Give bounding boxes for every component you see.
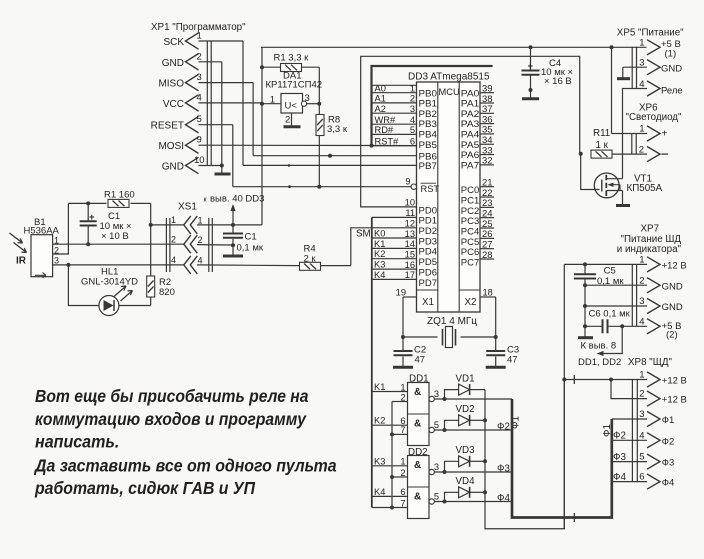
svg-text:K2: K2 bbox=[374, 416, 385, 426]
node thick vertical on pin6 row bbox=[370, 144, 374, 148]
svg-text:C1: C1 bbox=[245, 232, 257, 243]
ground XP1 GND symbol bbox=[215, 166, 231, 175]
svg-text:K1: K1 bbox=[374, 382, 385, 392]
node diode branch VD1 bbox=[443, 397, 447, 401]
svg-text:PA4: PA4 bbox=[461, 130, 480, 140]
svg-text:14: 14 bbox=[405, 239, 415, 249]
label Ф1 rotated at gate bbox=[511, 416, 522, 429]
note text line bbox=[35, 432, 119, 452]
wire PD0 route over MCU bbox=[361, 56, 580, 207]
MCU pin 39 PA0 bbox=[461, 84, 494, 99]
svg-text:2: 2 bbox=[285, 115, 290, 126]
connector XP8 title bbox=[628, 357, 673, 368]
note text line bbox=[35, 409, 307, 429]
ground DA1 pin2 bbox=[284, 125, 301, 128]
resistor R11 label bbox=[593, 128, 610, 151]
node row7 tap bbox=[328, 154, 332, 158]
node C4 bottom bbox=[529, 88, 533, 92]
svg-text:&: & bbox=[414, 419, 421, 430]
MCU pin label PB3 bbox=[419, 119, 438, 129]
svg-text:MISO: MISO bbox=[158, 79, 184, 90]
wire X1 to crystal bbox=[403, 297, 438, 337]
svg-text:RESET: RESET bbox=[151, 121, 184, 132]
svg-text:12: 12 bbox=[405, 218, 415, 228]
wire MCU pin7 row bbox=[253, 155, 416, 157]
svg-text:3: 3 bbox=[639, 296, 644, 307]
svg-text:2: 2 bbox=[171, 235, 176, 245]
ground C4 bbox=[522, 97, 539, 100]
MCU pin18 bbox=[480, 288, 496, 298]
node cathode bus VD4 bbox=[483, 490, 487, 494]
wire HL1 left bbox=[68, 265, 99, 306]
svg-text:11: 11 bbox=[405, 208, 415, 218]
svg-text:&: & bbox=[414, 492, 421, 503]
wire thick Ф1 route bbox=[512, 399, 612, 518]
svg-text:3: 3 bbox=[197, 72, 202, 83]
wire VT1 source to ground bbox=[622, 191, 624, 205]
resistor R1 3,3 к bbox=[262, 64, 319, 72]
wire DA1 pin1 bbox=[262, 103, 281, 105]
svg-text:7: 7 bbox=[400, 498, 405, 508]
wire X2 to crystal bbox=[461, 297, 496, 337]
MCU X2 cell bbox=[459, 290, 480, 308]
transistor VT1 bbox=[594, 173, 622, 198]
wire R1 right vertical down to DA1 pin3 bbox=[318, 67, 320, 104]
net K3 wire to gate input 1 bbox=[372, 456, 408, 466]
svg-text:17: 17 bbox=[405, 270, 415, 280]
svg-text:DD1, DD2: DD1, DD2 bbox=[578, 357, 621, 368]
svg-text:1: 1 bbox=[639, 124, 644, 135]
wire HL1 right to R2 bbox=[119, 305, 151, 307]
svg-text:выв. 40 DD3: выв. 40 DD3 bbox=[210, 194, 264, 205]
svg-text:WR#: WR# bbox=[375, 115, 396, 125]
diode VD1 bbox=[456, 373, 475, 395]
wire MISO from XP1-3 bbox=[199, 82, 254, 84]
wire gnd vertical C5-C6 bbox=[584, 285, 586, 336]
capacitor C4 bbox=[522, 47, 540, 97]
svg-text:GND: GND bbox=[662, 281, 683, 292]
wire gate output row 1 bbox=[434, 398, 512, 400]
ground C3 bbox=[486, 366, 506, 369]
connector XP7 title bbox=[617, 224, 682, 255]
svg-text:A2: A2 bbox=[375, 104, 386, 114]
net K0 to MCU pin 13 bbox=[372, 229, 417, 239]
svg-text:С6 0,1 мк: С6 0,1 мк bbox=[589, 309, 631, 320]
capacitor C1 10мк bbox=[80, 203, 97, 244]
svg-text:PD6: PD6 bbox=[419, 267, 438, 277]
wire GND from XP1-10 bbox=[199, 165, 222, 167]
svg-text:К выв. 8: К выв. 8 bbox=[581, 341, 617, 352]
MCU X1 cell bbox=[417, 290, 438, 308]
svg-text:Ф4: Ф4 bbox=[497, 493, 510, 504]
MCU pin 36 PA3 bbox=[461, 114, 494, 129]
svg-text:GNL-3014YD: GNL-3014YD bbox=[81, 277, 138, 288]
node crystal left bbox=[401, 335, 405, 339]
svg-text:2: 2 bbox=[410, 94, 415, 104]
svg-text:4: 4 bbox=[171, 255, 176, 265]
svg-text:SM: SM bbox=[356, 229, 371, 240]
svg-text:и индикатора": и индикатора" bbox=[617, 244, 682, 255]
svg-text:1: 1 bbox=[410, 84, 415, 94]
net A0 wire to MCU pin 1 bbox=[372, 84, 417, 94]
svg-text:PA2: PA2 bbox=[461, 109, 480, 119]
wire B1 pin2 up to R1-160 row bbox=[53, 203, 69, 254]
IR receiver B1 label bbox=[24, 217, 60, 237]
node R1 left bbox=[260, 65, 264, 69]
wire XP5 pin4 to VT1 drain bbox=[623, 89, 648, 179]
ground VT1 bbox=[616, 204, 630, 207]
connector XS1 body left bbox=[166, 218, 170, 272]
supervisor DA1 label bbox=[266, 71, 323, 91]
svg-text:GND: GND bbox=[162, 162, 184, 173]
wire RESET from XP1-5 bbox=[199, 124, 233, 126]
net RD# wire to MCU pin 5 bbox=[372, 125, 417, 135]
svg-text:PD7: PD7 bbox=[419, 278, 438, 288]
connector XP1 title bbox=[151, 22, 246, 33]
net WR# wire to MCU pin 4 bbox=[372, 115, 417, 125]
MCU pin9 RST bbox=[405, 177, 439, 195]
svg-text:6: 6 bbox=[639, 472, 644, 483]
wire XS1 row1 bbox=[151, 224, 184, 226]
svg-text:PC7: PC7 bbox=[461, 257, 480, 267]
note text line bbox=[35, 386, 309, 406]
wire diode jog VD1 bbox=[445, 390, 459, 399]
svg-text:7: 7 bbox=[400, 425, 405, 435]
connector XP6 pin1 bbox=[612, 124, 668, 142]
svg-text:PC2: PC2 bbox=[461, 206, 480, 216]
svg-text:9: 9 bbox=[197, 135, 202, 146]
svg-text:MCU: MCU bbox=[439, 87, 460, 97]
MCU pin label PB1 bbox=[419, 99, 438, 109]
AND gate DD1 bbox=[408, 383, 430, 446]
svg-text:2: 2 bbox=[400, 468, 405, 478]
resistor R8 label bbox=[327, 115, 348, 135]
node DA1 pin1 / VCC bbox=[260, 102, 264, 106]
svg-text:4: 4 bbox=[197, 92, 202, 103]
connector XS1 pin2 bbox=[171, 235, 203, 254]
svg-text:1: 1 bbox=[400, 457, 405, 467]
svg-text:820: 820 bbox=[159, 287, 175, 298]
svg-text:R1 3,3 к: R1 3,3 к bbox=[274, 53, 310, 64]
node speck on pin8 row bbox=[288, 164, 291, 167]
node XP7 pin3 left bbox=[583, 304, 587, 308]
connector XP8 pin2 bbox=[639, 389, 687, 407]
gate output 3 bubble bbox=[429, 462, 439, 475]
connector XP5 pin1 bbox=[639, 38, 681, 60]
svg-text:работать, сидюк ГАВ и УП: работать, сидюк ГАВ и УП bbox=[34, 478, 255, 498]
MCU pin label PB7 bbox=[419, 161, 438, 171]
svg-text:XP5 "Питание": XP5 "Питание" bbox=[617, 28, 684, 39]
resistor R8 3,3 к bbox=[316, 104, 324, 187]
svg-text:1: 1 bbox=[400, 382, 405, 392]
MCU pin 35 PA4 bbox=[461, 125, 494, 140]
AND gate DD2 bbox=[408, 456, 430, 519]
MCU pin label PB4 bbox=[419, 130, 438, 140]
wire R1-160 right down bbox=[150, 203, 152, 275]
svg-text:U<: U< bbox=[285, 101, 298, 112]
svg-text:1: 1 bbox=[171, 215, 176, 225]
svg-text:VD2: VD2 bbox=[456, 404, 475, 415]
MCU label bbox=[439, 87, 460, 97]
wire XP8 pin5 Ф3 bbox=[613, 452, 647, 463]
svg-text:5: 5 bbox=[197, 114, 202, 125]
wire XS1 row1 right bbox=[197, 224, 262, 226]
connector XP1 pin 5 RESET bbox=[151, 114, 202, 133]
svg-text:PD3: PD3 bbox=[419, 236, 438, 246]
wire SCK from XP1-1 to vertical bbox=[199, 40, 244, 42]
connector XP1 pin 3 MISO bbox=[158, 72, 201, 91]
svg-text:"Светодиод": "Светодиод" bbox=[626, 112, 683, 123]
connector XP7 pin2 bbox=[585, 275, 683, 293]
MCU pin 34 PA5 bbox=[461, 135, 494, 150]
svg-text:коммутацию входов и программу: коммутацию входов и программу bbox=[35, 409, 307, 429]
crystal ZQ1 label bbox=[427, 316, 477, 327]
svg-text:PD2: PD2 bbox=[419, 226, 438, 236]
svg-text:K3: K3 bbox=[374, 456, 385, 466]
wire gate output row 3 bbox=[434, 471, 511, 473]
svg-text:3: 3 bbox=[434, 389, 439, 399]
svg-text:5: 5 bbox=[434, 492, 439, 502]
svg-text:1: 1 bbox=[198, 216, 203, 226]
svg-text:VD4: VD4 bbox=[456, 476, 476, 487]
connector XP1 pin 9 MOSI bbox=[158, 135, 201, 154]
wire +5V top rail bbox=[261, 46, 647, 48]
wire gate output row 2 bbox=[434, 429, 511, 431]
net K1 to MCU pin 14 bbox=[372, 239, 417, 249]
connector XP7 pin1 bbox=[639, 255, 686, 273]
svg-text:MOSI: MOSI bbox=[158, 141, 184, 152]
bus SM vertical bbox=[371, 217, 373, 507]
label SM bbox=[356, 229, 371, 240]
tick crossing on Ф1 route bbox=[573, 513, 575, 522]
svg-text:10: 10 bbox=[405, 198, 415, 208]
node C6 left bbox=[583, 324, 587, 328]
wire XP8 pin2 bbox=[611, 380, 647, 399]
node cathode bus VD3 bbox=[483, 459, 487, 463]
svg-text:+: + bbox=[527, 61, 533, 72]
diode VD2 bbox=[456, 404, 475, 426]
wire diode cathode bus bbox=[485, 380, 564, 529]
svg-text:3,3 к: 3,3 к bbox=[327, 124, 348, 135]
supervisor DA1 body bbox=[281, 94, 307, 114]
svg-text:PA6: PA6 bbox=[461, 150, 480, 160]
MCU pin 21 PC0 bbox=[461, 178, 494, 196]
svg-text:DD3 ATmega8515: DD3 ATmega8515 bbox=[408, 72, 490, 83]
MCU pin 26 PC5 bbox=[461, 229, 494, 247]
svg-text:× 10 В: × 10 В bbox=[101, 231, 129, 242]
svg-text:RST: RST bbox=[421, 184, 440, 194]
wire DA1 pin3 to R8 top bbox=[307, 103, 320, 105]
wire diode cathode VD3 bbox=[470, 460, 485, 462]
svg-text:PB0: PB0 bbox=[419, 88, 438, 98]
svg-text:1: 1 bbox=[639, 255, 644, 266]
node C1 0,1мк bottom bbox=[231, 243, 235, 247]
svg-text:3: 3 bbox=[410, 104, 415, 114]
svg-text:(1): (1) bbox=[665, 49, 677, 60]
net K2 to MCU pin 15 bbox=[372, 249, 417, 259]
svg-text:X1: X1 bbox=[422, 297, 434, 308]
ground C5-C6 stem bbox=[578, 336, 593, 339]
AND gate DD2 label bbox=[408, 447, 428, 458]
wire diode jog VD4 bbox=[445, 492, 459, 501]
label IR bbox=[16, 256, 27, 267]
svg-text:A0: A0 bbox=[375, 84, 386, 94]
node +5V rail / C4 bbox=[529, 45, 533, 49]
svg-text:R11: R11 bbox=[593, 128, 610, 139]
svg-text:4: 4 bbox=[639, 430, 644, 441]
svg-text:Ф2: Ф2 bbox=[497, 422, 510, 433]
svg-text:16: 16 bbox=[405, 260, 415, 270]
wire GND vertical XP1-2 to XP1-10 bbox=[221, 62, 223, 166]
ground row2 symbol bbox=[223, 245, 243, 256]
svg-text:PD1: PD1 bbox=[419, 216, 438, 226]
MCU pin 38 PA1 bbox=[461, 94, 494, 109]
MCU pin19 bbox=[396, 288, 417, 298]
MCU pin 25 PC4 bbox=[461, 219, 494, 237]
svg-text:1 к: 1 к bbox=[596, 140, 609, 151]
resistor R11 bbox=[591, 150, 647, 158]
net K2 wire to gate input 6 bbox=[372, 416, 408, 426]
wire diode cathode VD1 bbox=[470, 389, 485, 391]
svg-text:GND: GND bbox=[162, 58, 184, 69]
resistor R2 820 bbox=[147, 276, 155, 306]
gate input 2 wire bbox=[392, 392, 408, 402]
wire +5V down to XP6 pin1 bbox=[611, 47, 613, 133]
svg-text:2: 2 bbox=[197, 51, 202, 62]
node C6 right bbox=[620, 324, 624, 328]
capacitor C1 10мк labels bbox=[89, 211, 132, 242]
svg-text:9: 9 bbox=[405, 177, 410, 187]
connector XP7 pin4 bbox=[639, 316, 681, 340]
MCU pin 10 PD0 bbox=[405, 198, 437, 216]
MCU pin label PB0 bbox=[419, 88, 438, 98]
diode VD4 bbox=[456, 476, 476, 498]
connector XS1 pin4 bbox=[171, 255, 203, 274]
svg-text:K4: K4 bbox=[374, 270, 385, 280]
svg-text:5: 5 bbox=[410, 125, 415, 135]
svg-text:RST#: RST# bbox=[375, 136, 400, 146]
connector XP6 title bbox=[626, 103, 683, 124]
wire XP8 pin3 Ф1 bbox=[612, 418, 647, 420]
svg-text:&: & bbox=[414, 460, 421, 471]
wire MISO vertical down to MCU pin7 row bbox=[252, 83, 254, 156]
svg-text:VCC: VCC bbox=[163, 99, 184, 110]
MCU pin 37 PA2 bbox=[461, 104, 494, 119]
node +5V rail / XP6 feed bbox=[610, 45, 614, 49]
gate output 3 bubble bbox=[429, 389, 439, 402]
net K4 wire to gate input 6 bbox=[372, 487, 408, 497]
resistor R4 label bbox=[304, 244, 317, 265]
svg-text:PD5: PD5 bbox=[419, 257, 438, 267]
svg-text:ZQ1 4 МГц: ZQ1 4 МГц bbox=[427, 316, 477, 327]
node R11 left bbox=[579, 152, 583, 156]
wire XP8 pin4 Ф2 bbox=[613, 431, 647, 442]
svg-text:PC1: PC1 bbox=[461, 195, 480, 205]
MCU pin label PB6 bbox=[419, 151, 438, 161]
MCU pin 15 PD5 bbox=[405, 249, 437, 267]
capacitor C2 bbox=[394, 337, 413, 366]
wire diode jog VD3 bbox=[445, 461, 459, 472]
connector XP6 pin2 bbox=[639, 145, 668, 162]
svg-text:Ф2: Ф2 bbox=[613, 431, 626, 442]
svg-text:КР1171СП42: КР1171СП42 bbox=[266, 80, 323, 91]
svg-text:10: 10 bbox=[194, 155, 205, 166]
MCU pin label PB5 bbox=[419, 140, 438, 150]
MCU pin 14 PD4 bbox=[405, 239, 437, 257]
MCU pin 23 PC2 bbox=[461, 198, 494, 216]
node diode branch VD2 bbox=[443, 428, 447, 432]
svg-text:Ф1: Ф1 bbox=[602, 424, 613, 437]
svg-text:SCK: SCK bbox=[163, 37, 184, 48]
connector XP1 body bbox=[207, 41, 211, 166]
connector XP8 body bbox=[632, 380, 637, 482]
wire VCC from XP1-4 to DA1 node bbox=[199, 102, 263, 104]
svg-text:XP8 "ЩД": XP8 "ЩД" bbox=[628, 357, 673, 368]
svg-text:написать.: написать. bbox=[35, 432, 119, 452]
net RST# wire to MCU pin 6 bbox=[372, 136, 417, 146]
net label Ф3 at gate bbox=[497, 464, 510, 475]
svg-text:5: 5 bbox=[434, 420, 439, 430]
svg-text:19: 19 bbox=[396, 288, 406, 298]
MCU DD3 body bbox=[417, 82, 481, 312]
node diode branch VD3 bbox=[443, 470, 447, 474]
svg-text:VD3: VD3 bbox=[456, 445, 476, 456]
svg-text:1: 1 bbox=[639, 370, 644, 381]
svg-text:15: 15 bbox=[405, 249, 415, 259]
net K4 to MCU pin 17 bbox=[372, 270, 417, 280]
svg-text:Ф4: Ф4 bbox=[662, 478, 675, 489]
svg-text:Ф3: Ф3 bbox=[613, 452, 626, 463]
svg-text:K4: K4 bbox=[374, 487, 385, 497]
svg-text:&: & bbox=[414, 387, 421, 398]
svg-text:3: 3 bbox=[639, 409, 644, 420]
node crystal right bbox=[494, 335, 498, 339]
to pin 40 DD3 arrow bbox=[204, 194, 265, 225]
svg-text:PC4: PC4 bbox=[461, 226, 480, 236]
gate input 7 wire strobe bbox=[372, 498, 408, 508]
svg-text:PC5: PC5 bbox=[461, 237, 480, 247]
label к выв 8 bbox=[581, 341, 617, 352]
wire MOSI from XP1-9 to MCU pin6 bbox=[199, 144, 417, 146]
svg-text:6: 6 bbox=[410, 136, 415, 146]
svg-text:КП505А: КП505А bbox=[627, 183, 663, 194]
wire XP8 pin6 Ф4 bbox=[613, 472, 647, 483]
transistor VT1 labels bbox=[627, 174, 663, 195]
svg-text:4: 4 bbox=[198, 256, 203, 266]
node R8 bottom on reset row bbox=[317, 185, 321, 189]
wire MCU pin11 row bbox=[372, 216, 417, 218]
svg-text:Вот еще бы присобачить реле на: Вот еще бы присобачить реле на bbox=[35, 386, 309, 406]
wire reset row to MCU pin9 bbox=[233, 186, 412, 188]
wire thick reset-bus top bbox=[372, 66, 493, 146]
svg-text:K3: K3 bbox=[374, 260, 385, 270]
wire XS1 row2 right bbox=[197, 244, 233, 246]
svg-text:0,1 мк: 0,1 мк bbox=[237, 243, 264, 254]
MCU DD3 title bbox=[408, 72, 490, 83]
resistor R1 160 label bbox=[104, 190, 135, 201]
node C1 bottom bbox=[86, 242, 90, 246]
wire XP7 pin1 +12V bbox=[564, 263, 647, 265]
capacitor C6 label bbox=[589, 309, 631, 320]
wire +5V vertical rail to DA1 and XS1 row1 bbox=[261, 47, 263, 225]
gate input 2 wire bbox=[392, 468, 408, 478]
note text line bbox=[34, 478, 255, 498]
svg-text:VD1: VD1 bbox=[456, 373, 475, 384]
wire B1 pin3 row to XS1 pin4 bbox=[53, 264, 184, 266]
node on reset row bbox=[288, 185, 291, 188]
node cathode bus VD2 bbox=[483, 418, 487, 422]
ground XP5 pin3 bbox=[617, 77, 630, 80]
